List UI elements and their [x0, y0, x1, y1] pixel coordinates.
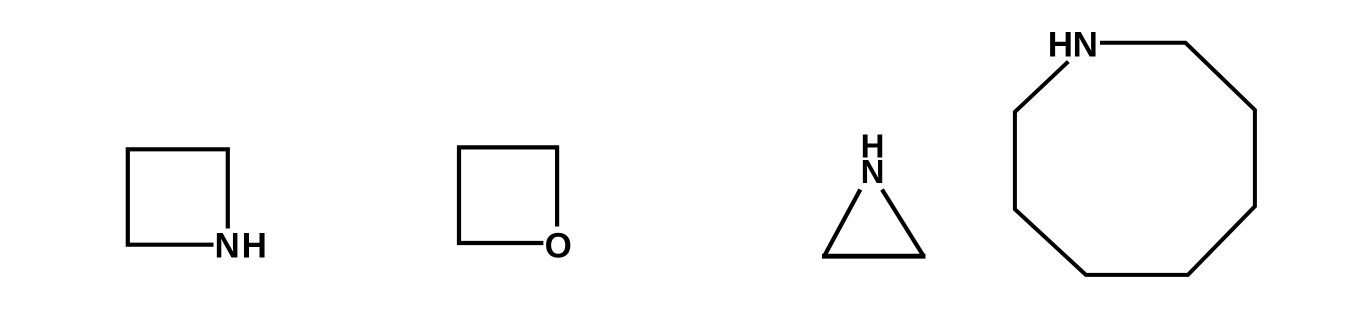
- ring 3: aziridine bond N1-C3 (right side): [882, 190, 923, 256]
- ring 2: oxetane outline (bonds O1-C2, C2-C3, C3-C4, C4-O1): [459, 147, 557, 243]
- ring 4: azocane octagon outline (bonds N1-C2 ... C8-N1): [1015, 43, 1255, 275]
- svg-text:HN: HN: [1048, 26, 1098, 65]
- svg-text:N: N: [861, 153, 885, 190]
- svg-text:O: O: [545, 226, 572, 265]
- ring 1: azetidine outline (bonds N1-C2, C2-C3, C3-C4, C4-N1): [128, 149, 228, 244]
- ring 3: aziridine bond C2-C3 (base): [822, 254, 926, 259]
- svg-text:NH: NH: [215, 227, 269, 266]
- ring 3: aziridine bond N1-C2 (left side): [824, 190, 860, 256]
